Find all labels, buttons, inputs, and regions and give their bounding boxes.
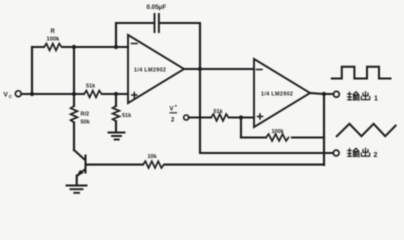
svg-text:2: 2: [374, 152, 378, 159]
wire top row (integrator minus-input row): [32, 46, 128, 48]
terminal V+/2: [184, 115, 189, 120]
svg-text:1: 1: [374, 96, 378, 103]
svg-text:50k: 50k: [81, 120, 91, 126]
wire emitter to ground: [76, 176, 78, 186]
node junction plus input (241,117.5): [239, 115, 243, 119]
terminal Vc: [15, 91, 21, 97]
terminal output 2 circle: [333, 150, 339, 156]
wire U1 output row to U2 minus input: [184, 68, 254, 70]
ground G1: [67, 186, 87, 193]
svg-text:R/2: R/2: [81, 112, 90, 118]
svg-text:100k: 100k: [47, 37, 61, 43]
wire U2 output: [310, 93, 333, 94]
svg-text:51k: 51k: [214, 109, 224, 115]
label output2 glyph chu: [361, 148, 369, 156]
svg-text:51k: 51k: [86, 84, 96, 90]
resistor R1 R 100k: [44, 44, 62, 51]
wire triangle output row to terminal 2: [200, 152, 333, 154]
node junction (116,94): [114, 92, 118, 96]
node junction U1 output (200,69): [198, 67, 202, 71]
wire capacitor row right and down to output node: [160, 23, 200, 69]
node junction (74,47): [72, 45, 76, 49]
svg-text:0.05μF: 0.05μF: [147, 4, 167, 11]
wire hysteresis drop x241: [240, 118, 242, 138]
resistor R5 51k: [211, 114, 229, 121]
svg-text:V: V: [170, 107, 174, 113]
capacitor C1 0.05uF: [155, 14, 159, 32]
wire triangle output drop x200: [199, 69, 201, 153]
wire Vc row: [22, 93, 129, 95]
terminal output 1 circle: [334, 91, 340, 97]
icon square wave: [332, 67, 391, 79]
label output2 glyph shu: [348, 148, 359, 157]
resistor R6 100k: [266, 134, 289, 141]
U2 plus input marker: [258, 114, 263, 119]
resistor R2 51k horizontal: [84, 91, 102, 98]
wire resistor to ground: [115, 121, 117, 132]
wire capacitor row left: [116, 22, 154, 24]
svg-text:V: V: [4, 92, 9, 99]
label output1 glyph shu: [348, 92, 359, 101]
resistor R3 R/2 50k vertical: [71, 106, 78, 122]
Q1 emitter arrowhead: [77, 170, 84, 176]
wire V+/2 row: [189, 116, 254, 118]
U1 plus input marker: [132, 93, 137, 98]
svg-text:R: R: [51, 29, 56, 35]
svg-text:+: +: [175, 104, 178, 109]
ground G2: [109, 133, 125, 140]
node junction (116,47): [114, 45, 118, 49]
wire x116 down to 51k ground resistor: [115, 94, 117, 106]
icon triangle wave: [337, 124, 396, 136]
svg-text:51k: 51k: [122, 113, 132, 119]
op-amp U1 1/4 LM2902: [128, 35, 184, 103]
wire left riser Vc to top row: [31, 47, 33, 94]
wire square out drop x324: [323, 94, 325, 165]
transistor Q1: [74, 150, 87, 176]
U1 minus input marker: [132, 43, 138, 45]
wire riser x74 top row to R/2: [73, 47, 75, 106]
label output1 glyph chu: [361, 92, 369, 100]
resistor R4 51k vertical: [113, 106, 120, 121]
node junction (74,94): [72, 92, 76, 96]
wire hysteresis row: [241, 136, 324, 138]
svg-text:C: C: [9, 94, 13, 99]
svg-text:1/4 LM2902: 1/4 LM2902: [261, 92, 293, 98]
wire riser x116 to capacitor row: [115, 23, 117, 47]
U2 minus input marker: [257, 69, 263, 71]
node junction (32,94): [30, 92, 34, 96]
resistor R7 10k: [143, 161, 164, 168]
wire R/2 to transistor collector: [73, 122, 75, 150]
svg-text:100k: 100k: [272, 129, 285, 135]
svg-text:1/4 LM2902: 1/4 LM2902: [134, 68, 166, 74]
wire bottom feedback row: [86, 164, 324, 166]
node junction output1 (324,94): [322, 92, 326, 96]
svg-text:2: 2: [171, 118, 175, 124]
svg-text:10k: 10k: [148, 154, 158, 160]
op-amp U2 1/4 LM2902: [254, 59, 310, 127]
